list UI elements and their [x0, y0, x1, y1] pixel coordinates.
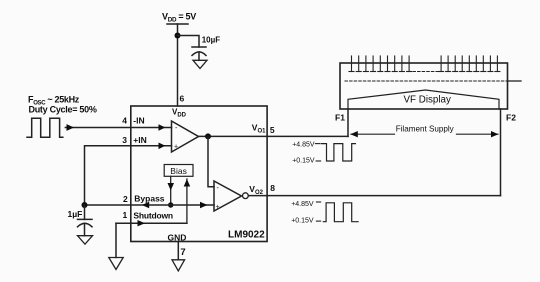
- filament supply arrow: [350, 124, 498, 137]
- capacitor C1 10uF: [192, 36, 220, 61]
- arrowhead up: [184, 179, 191, 187]
- arrowhead down: [168, 183, 175, 191]
- node bypass dot: [168, 202, 173, 207]
- svg-text:+4.85V: +4.85V: [292, 141, 315, 148]
- bias to bypass wire: [170, 176, 172, 205]
- svg-text:Filament Supply: Filament Supply: [396, 124, 455, 133]
- dashed line 2 (grid bus): [345, 80, 508, 82]
- display grid pins right group: [439, 56, 500, 72]
- svg-text:+: +: [174, 144, 178, 151]
- VDD supply terminal: [162, 12, 196, 25]
- arrowhead: [67, 124, 75, 131]
- VF display box: [340, 63, 508, 109]
- svg-text:+0.15V: +0.15V: [291, 218, 314, 225]
- pin 1 shutdown wire: [116, 222, 187, 224]
- filament trapezoid: [348, 90, 499, 109]
- svg-text:-: -: [217, 185, 220, 192]
- wire VO1 node to inverter input: [208, 136, 214, 186]
- svg-text:1: 1: [123, 210, 128, 220]
- F1 wire: [347, 109, 349, 136]
- op-amp U2 inverter: [214, 181, 248, 211]
- svg-text:4: 4: [122, 116, 127, 126]
- pin 7 wire: [177, 242, 179, 260]
- ground (C1): [193, 60, 207, 68]
- waveform F2: [291, 201, 358, 224]
- ground (pin 7): [172, 260, 185, 271]
- LM9022 box: [131, 106, 267, 242]
- oscillator input square wave: [27, 118, 63, 137]
- wire VO1 output to F1: [199, 135, 349, 137]
- shutdown to bias wire: [186, 179, 188, 223]
- shutdown ground wire: [115, 223, 117, 257]
- svg-text:+0.15V: +0.15V: [292, 158, 315, 165]
- svg-text:VO1: VO1: [252, 122, 266, 134]
- svg-text:+4.85V: +4.85V: [291, 201, 314, 208]
- ground (C2): [78, 236, 93, 245]
- svg-text:GND: GND: [168, 233, 187, 243]
- arrowhead right (into box): [138, 220, 146, 226]
- svg-text:+: +: [216, 204, 220, 211]
- +IN external wire: [85, 146, 131, 205]
- svg-text:LM9022: LM9022: [228, 230, 265, 241]
- pin 3 wire: [131, 145, 172, 147]
- pin 4 wire: [131, 127, 172, 129]
- svg-text:Duty Cycle= 50%: Duty Cycle= 50%: [29, 105, 97, 115]
- svg-text:Bias: Bias: [170, 166, 187, 176]
- svg-text:-IN: -IN: [133, 116, 144, 126]
- wire VDD vertical: [177, 24, 179, 106]
- wire to capacitor: [178, 36, 200, 48]
- svg-text:6: 6: [180, 94, 185, 104]
- arrowhead: [159, 124, 166, 131]
- svg-text:VF Display: VF Display: [404, 94, 451, 105]
- svg-text:10µF: 10µF: [202, 36, 221, 45]
- wire grid bus out: [508, 80, 522, 82]
- wire osc to pin 4: [65, 127, 130, 129]
- op-amp U1: [172, 121, 199, 152]
- svg-text:7: 7: [180, 247, 185, 258]
- svg-text:1µF: 1µF: [68, 209, 83, 219]
- svg-text:+IN: +IN: [133, 135, 146, 145]
- svg-text:8: 8: [270, 183, 275, 193]
- svg-text:3: 3: [122, 135, 127, 145]
- svg-text:VDD: VDD: [172, 108, 187, 119]
- dashed line 1 (between pin groups): [413, 71, 440, 73]
- arrowhead left (inside box): [142, 202, 149, 208]
- pin 8 wire VO2 to F2: [248, 195, 500, 197]
- svg-text:F2: F2: [506, 113, 516, 123]
- Bias box: [164, 165, 193, 177]
- ground (shutdown): [109, 258, 123, 270]
- svg-text:Bypass: Bypass: [134, 193, 165, 203]
- F2 wire: [500, 109, 502, 196]
- svg-text:F1: F1: [335, 113, 345, 123]
- node junction dot: [175, 33, 181, 39]
- arrowhead right (to inverter): [200, 202, 208, 208]
- waveform F1: [292, 141, 355, 164]
- svg-text:VDD = 5V: VDD = 5V: [162, 12, 196, 24]
- display grid pins left group: [349, 56, 412, 72]
- node VO1 dot: [205, 133, 211, 139]
- svg-text:Shutdown: Shutdown: [133, 210, 172, 220]
- svg-text:-: -: [175, 125, 178, 132]
- arrowhead: [159, 143, 166, 150]
- capacitor C2 1uF: [68, 205, 93, 236]
- node 1uF dot: [82, 202, 88, 208]
- svg-text:2: 2: [123, 194, 128, 204]
- svg-text:VO2: VO2: [249, 184, 263, 196]
- pin 2 bypass wire: [85, 204, 215, 206]
- svg-text:5: 5: [270, 125, 275, 135]
